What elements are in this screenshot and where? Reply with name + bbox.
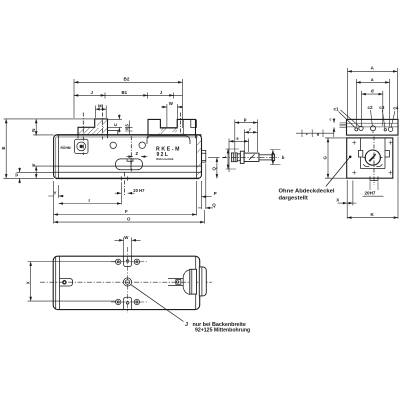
ext F right xyxy=(196,181,198,216)
rib collar xyxy=(237,154,240,161)
svg-text:92+125 Mittenbohrung: 92+125 Mittenbohrung xyxy=(195,328,250,334)
bottom pad hole xyxy=(126,302,129,305)
end cap seam xyxy=(201,267,203,296)
hole c4 xyxy=(388,127,392,131)
dim z g row line xyxy=(296,132,334,134)
seat arc right xyxy=(376,164,382,166)
svg-text:F: F xyxy=(125,209,128,214)
ext V top xyxy=(33,165,54,167)
ribbed shaft xyxy=(231,153,237,162)
bottom hole left inner xyxy=(117,301,119,303)
dim U xyxy=(19,168,21,173)
end view vertical centerline xyxy=(373,137,375,186)
svg-text:dargestellt: dargestellt xyxy=(279,196,308,202)
spindle boss xyxy=(202,150,206,162)
svg-text:c3: c3 xyxy=(379,105,385,110)
top pad hole xyxy=(126,260,129,263)
ext boss down xyxy=(205,164,207,210)
ext G top xyxy=(325,137,347,139)
DIMENSIONS FRONT VIEW BOTTOM xyxy=(48,181,204,224)
body side screw circle right xyxy=(139,142,145,148)
svg-text:U: U xyxy=(14,173,19,176)
end plate seam xyxy=(196,135,198,179)
svg-text:L: L xyxy=(222,155,227,158)
DIMENSIONS END VIEW xyxy=(296,66,399,219)
ext a right xyxy=(389,79,391,126)
dim W plan arrows xyxy=(115,239,124,241)
left plate seam xyxy=(58,135,60,179)
vise body outline xyxy=(54,135,202,179)
svg-text:C: C xyxy=(113,123,118,126)
svg-text:s: s xyxy=(236,136,239,141)
svg-text:Q: Q xyxy=(212,167,217,171)
flange disc xyxy=(240,151,244,163)
dim L xyxy=(227,149,229,169)
hole c2 xyxy=(371,126,376,131)
dim N xyxy=(35,119,37,136)
svg-text:Y: Y xyxy=(54,190,57,195)
svg-text:K: K xyxy=(371,212,375,217)
ext s right xyxy=(248,139,250,153)
bottom hole right inner xyxy=(136,301,138,303)
leader c4 xyxy=(391,111,395,127)
DIMENSIONS FRONT VIEW TOP xyxy=(74,77,183,134)
circle tick left xyxy=(363,157,366,159)
dim M xyxy=(95,108,106,110)
ext d left xyxy=(361,91,363,126)
center hole outer xyxy=(123,278,131,286)
fixed jaw step line xyxy=(108,130,118,135)
svg-text:I: I xyxy=(89,198,90,203)
notch corner hatch left xyxy=(161,128,166,133)
dim Q vertical xyxy=(216,158,218,179)
dim J B1 J line xyxy=(74,94,182,96)
ext N bottom xyxy=(33,134,54,136)
svg-text:a: a xyxy=(371,77,374,82)
leader to note xyxy=(326,157,350,187)
svg-text:20H7: 20H7 xyxy=(365,191,376,196)
svg-text:N: N xyxy=(31,129,36,132)
top hole right inner xyxy=(136,261,138,263)
dim I xyxy=(59,203,122,205)
centerline keyway xyxy=(123,173,125,197)
ribs xyxy=(233,153,235,162)
left edge inner line xyxy=(55,137,57,177)
spindle collar lines xyxy=(202,153,206,160)
svg-text:d: d xyxy=(371,89,374,94)
svg-text:W: W xyxy=(124,235,129,240)
slot pocket in body xyxy=(116,159,143,170)
dim W front: left arrow xyxy=(161,106,167,108)
svg-text:A: A xyxy=(371,66,375,71)
small dim e above bar xyxy=(333,119,335,123)
bottom hole right outer xyxy=(134,299,139,304)
svg-text:Z: Z xyxy=(136,151,139,156)
ext s left xyxy=(228,139,230,173)
circle tick right xyxy=(380,157,383,159)
svg-text:B2: B2 xyxy=(124,77,130,82)
svg-text:Ohne Abdeckdeckel: Ohne Abdeckdeckel xyxy=(279,189,335,195)
leader c3 xyxy=(382,110,385,128)
cylinder hatch xyxy=(249,154,255,159)
top hole left inner xyxy=(117,261,119,263)
ext X end view xyxy=(352,181,354,206)
underline 20H7 xyxy=(363,195,384,197)
bell arcs xyxy=(183,270,190,295)
ext G bottom xyxy=(325,177,347,179)
ext Y right xyxy=(58,185,60,198)
DIMENSIONS SPINDLE xyxy=(222,117,285,172)
dim p xyxy=(235,122,258,124)
svg-text:X: X xyxy=(336,197,339,202)
ext r left xyxy=(244,130,246,153)
svg-text:Röhm technik: Röhm technik xyxy=(156,157,174,161)
end cap plan xyxy=(199,267,206,296)
slot divider xyxy=(130,159,132,170)
svg-text:E: E xyxy=(1,146,6,149)
ext keyway left down xyxy=(120,182,122,205)
tick B1 right xyxy=(144,94,148,96)
Z arrows xyxy=(127,156,133,158)
dim Q bottom xyxy=(206,207,213,209)
spindle centerline xyxy=(222,156,279,158)
spindle hex plan xyxy=(176,280,181,285)
left jaw section hatch xyxy=(79,120,107,135)
ext W plan left xyxy=(123,238,125,257)
ext X plan top xyxy=(28,261,117,263)
spindle bore circle xyxy=(365,150,380,165)
svg-text:RÖHM: RÖHM xyxy=(61,145,71,150)
svg-text:20 H7: 20 H7 xyxy=(133,188,145,193)
ext line B2 left xyxy=(73,79,75,118)
dim O xyxy=(54,221,205,223)
ext W right xyxy=(176,104,178,127)
body side screw circle left xyxy=(110,142,116,148)
corner cross top-right xyxy=(389,141,393,145)
svg-text:0,5: 0,5 xyxy=(124,124,129,130)
bottom hole left outer xyxy=(116,299,121,304)
dim X plan xyxy=(30,262,32,302)
ext M left xyxy=(94,106,96,119)
dim d xyxy=(362,93,383,95)
slot notch xyxy=(127,159,133,161)
corner cross bottom-right xyxy=(389,171,393,175)
ext body right down xyxy=(201,181,203,209)
spindle hex dot xyxy=(176,281,178,283)
seat arc left xyxy=(363,164,369,166)
bell left face xyxy=(182,277,184,288)
ext d right xyxy=(382,91,384,126)
ext tick lines xyxy=(105,93,174,99)
svg-text:O: O xyxy=(127,217,131,222)
ext K right xyxy=(397,137,399,219)
ext a left xyxy=(355,79,357,126)
leader c2 xyxy=(371,110,373,126)
fixed jaw plate xyxy=(75,139,88,153)
svg-text:b: b xyxy=(282,155,285,160)
centerline jaw plate xyxy=(82,113,84,156)
tick J1 right xyxy=(102,94,106,96)
jaw insert seam lines xyxy=(347,123,399,127)
carriage screw head right xyxy=(178,134,187,136)
notch corner hatch right xyxy=(173,128,178,132)
ext M right xyxy=(105,106,107,119)
svg-text:X: X xyxy=(26,281,31,284)
fixed jaw block xyxy=(78,119,108,135)
guideway line lower xyxy=(54,171,202,173)
svg-text:J: J xyxy=(91,90,94,95)
bottom pad tab xyxy=(124,297,132,309)
main cylinder xyxy=(244,153,259,161)
END VIEW xyxy=(279,119,399,201)
thin shaft xyxy=(259,155,272,160)
movable jaw block xyxy=(148,119,196,134)
svg-text:c4: c4 xyxy=(393,106,399,111)
SPINDLE SIDE PIECE xyxy=(222,151,279,163)
top hole right outer xyxy=(134,259,139,264)
end cap xyxy=(272,154,275,160)
keyway arrows xyxy=(115,192,122,194)
svg-text:g: g xyxy=(317,131,320,136)
right end seam xyxy=(195,256,197,309)
left chamfer line xyxy=(55,257,57,309)
corner cross top-left xyxy=(352,141,356,145)
spindle housing right wall xyxy=(384,138,386,169)
ext line B2 right xyxy=(181,79,183,128)
ext U top xyxy=(17,171,54,173)
dim A xyxy=(348,70,398,72)
dim G xyxy=(327,138,329,178)
fixed jaw plate center dot xyxy=(80,145,83,148)
tick J1 left xyxy=(74,94,78,96)
hole row centerline top xyxy=(111,261,148,263)
end plate hatch xyxy=(197,141,201,175)
DIMENSIONS FRONT VIEW LEFT xyxy=(1,119,95,183)
housing bottom xyxy=(361,168,386,170)
ext body left down xyxy=(53,181,55,224)
disc seam xyxy=(191,269,193,294)
vertical centerline through center hole xyxy=(127,247,129,313)
svg-text:c: c xyxy=(330,118,332,122)
DIMENSIONS FRONT VIEW RIGHT xyxy=(198,158,220,210)
svg-text:r: r xyxy=(249,127,251,132)
ext W plan right xyxy=(131,238,133,257)
ticks z g xyxy=(302,130,334,138)
top pad tab xyxy=(124,256,132,266)
body bottom thick edge xyxy=(56,177,199,179)
left slot xyxy=(60,278,73,286)
dim V xyxy=(35,166,37,178)
ext A left xyxy=(347,68,349,119)
movable jaw small insert rect xyxy=(191,120,197,128)
spindle shaft plan xyxy=(168,279,183,286)
serration extension lines left of bar xyxy=(340,123,347,128)
svg-text:P: P xyxy=(214,191,217,196)
movable jaw notch bottom emphasis xyxy=(160,127,177,129)
ext p left xyxy=(234,120,236,153)
movable jaw carriage xyxy=(147,136,190,144)
jaw plate bar xyxy=(347,119,399,135)
hole row centerline bottom xyxy=(111,301,148,303)
hole c3 small xyxy=(384,129,386,131)
left end seam xyxy=(59,256,61,309)
svg-text:c1: c1 xyxy=(334,107,340,112)
ext C top xyxy=(108,118,123,120)
keyway 20H7 in body bottom xyxy=(121,176,127,180)
body top edge xyxy=(57,134,202,136)
leader 20H7 to keyway xyxy=(370,182,378,191)
end body outline xyxy=(347,138,393,178)
flange disc xyxy=(190,269,197,294)
dim W front: right arrow xyxy=(177,106,183,108)
centerline slot divider xyxy=(130,136,132,171)
spindle housing left wall xyxy=(360,138,362,169)
plan body outline xyxy=(53,256,200,309)
dim 0,5 line xyxy=(128,121,130,135)
Z dim inside front view xyxy=(127,151,148,156)
dim C: vertical xyxy=(118,114,120,119)
dim r xyxy=(245,131,258,133)
svg-text:V: V xyxy=(31,164,36,167)
dim B2 xyxy=(74,81,182,83)
top hole left outer xyxy=(116,259,121,264)
dim a xyxy=(356,81,389,83)
FRONT VIEW xyxy=(54,105,206,197)
dim X arrows xyxy=(338,202,348,204)
leader c1 xyxy=(339,110,360,128)
ext E/O bottom xyxy=(4,177,54,179)
tick J2 right xyxy=(170,94,174,96)
ext b xyxy=(270,150,281,165)
spindle key pointer xyxy=(369,156,374,161)
guideway line upper xyxy=(54,165,202,167)
PLAN VIEW xyxy=(40,247,250,334)
leader dot on body xyxy=(349,156,352,159)
svg-text:c2: c2 xyxy=(368,105,374,110)
dim E xyxy=(5,119,7,178)
fixed jaw plate circle xyxy=(77,142,86,151)
hole c1 small xyxy=(355,128,358,131)
keyway below end body xyxy=(370,176,378,180)
right lug xyxy=(385,151,389,158)
ext p right / r right xyxy=(257,120,259,153)
horizontal centerline xyxy=(40,281,212,283)
jaw tooth seam xyxy=(183,119,185,134)
jaw edge ticks through band xyxy=(78,135,196,138)
centerline right jaw screw xyxy=(180,113,182,135)
dim Y arrows xyxy=(48,195,64,197)
hole c1 counter xyxy=(359,126,363,130)
DIMENSIONS PLAN VIEW xyxy=(26,235,141,301)
ext 0,5 xyxy=(125,128,133,131)
dim P xyxy=(202,196,212,198)
svg-text:B1: B1 xyxy=(122,90,128,95)
centerline M xyxy=(102,105,104,140)
ext C bottom xyxy=(108,126,123,128)
dim K xyxy=(347,217,398,219)
dim b xyxy=(272,150,274,165)
svg-text:z: z xyxy=(306,131,308,136)
svg-text:W: W xyxy=(169,101,174,106)
corner cross bottom-left xyxy=(352,171,356,175)
ext O right xyxy=(204,210,206,224)
svg-text:J: J xyxy=(185,322,188,328)
dim s xyxy=(229,140,249,142)
ext X plan bottom xyxy=(28,300,117,302)
left lug xyxy=(358,151,362,158)
ext E top xyxy=(4,118,95,120)
body top face shading xyxy=(56,136,198,138)
ext L lines xyxy=(226,149,240,169)
svg-text:p: p xyxy=(244,117,247,122)
carriage screw head left xyxy=(155,134,164,136)
svg-text:J: J xyxy=(160,90,163,95)
leader from center hole xyxy=(131,285,184,322)
spindle key arrow tip xyxy=(373,154,376,157)
ext A right xyxy=(396,68,398,119)
svg-text:Q: Q xyxy=(212,202,216,207)
center hole inner xyxy=(125,280,129,284)
left slot hole xyxy=(63,281,66,284)
ext W left xyxy=(166,104,168,127)
svg-text:M: M xyxy=(98,104,102,109)
ext K left xyxy=(346,180,348,219)
ext Q vertical top xyxy=(208,157,220,159)
svg-text:G: G xyxy=(323,156,328,160)
dim F xyxy=(54,214,197,216)
hole c2 tick xyxy=(372,132,374,134)
